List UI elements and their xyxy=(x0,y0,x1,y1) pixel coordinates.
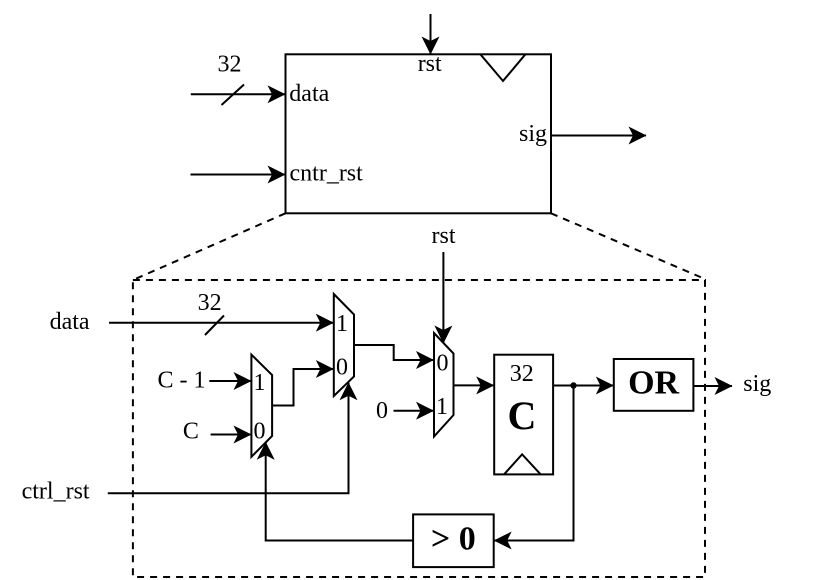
clock input wedge (top-level) xyxy=(480,54,525,81)
0 constant wire into M3 input 1 xyxy=(394,410,434,412)
svg-text:rst: rst xyxy=(418,51,442,77)
feedback wire to comparator xyxy=(494,386,573,541)
svg-text:1: 1 xyxy=(436,394,448,420)
svg-text:data: data xyxy=(50,309,90,335)
data input wire (top-level) xyxy=(191,93,285,95)
register clock wedge xyxy=(504,454,541,474)
zoom connector right (dashed) xyxy=(551,213,705,279)
mux M2 (data / count select) xyxy=(334,294,354,396)
svg-text:rst: rst xyxy=(432,223,456,249)
M2 output wire to M3 input 0 xyxy=(354,345,434,360)
sig output wire (top-level) xyxy=(551,135,646,137)
comparator > 0 box xyxy=(413,514,494,567)
svg-text:0: 0 xyxy=(336,354,348,380)
sig output wire (detail) xyxy=(693,385,732,387)
rst input arrow (top-level) xyxy=(430,14,432,54)
data wire into mux M2 xyxy=(109,322,333,324)
top-level block (counter module) xyxy=(286,54,552,213)
C-1 wire into mux M1 input 1 xyxy=(209,380,251,382)
svg-text:32: 32 xyxy=(510,361,534,387)
junction node xyxy=(570,382,576,388)
svg-text:1: 1 xyxy=(336,311,348,337)
svg-text:0: 0 xyxy=(437,350,449,376)
bus slash on data (top-level) xyxy=(222,85,245,106)
svg-text:OR: OR xyxy=(628,365,679,402)
ctrl_rst wire to M2 select xyxy=(108,383,349,494)
svg-text:C - 1: C - 1 xyxy=(158,368,206,394)
svg-text:cntr_rst: cntr_rst xyxy=(290,161,364,187)
OR gate box xyxy=(614,359,694,411)
C wire into mux M1 input 0 xyxy=(211,434,251,436)
cntr_rst input wire (top-level) xyxy=(191,174,286,176)
svg-text:0: 0 xyxy=(254,418,266,444)
zoom connector left (dashed) xyxy=(133,213,286,280)
M1 output wire to M2 input 0 xyxy=(272,369,333,406)
svg-text:0: 0 xyxy=(376,398,388,424)
rst wire into mux M3 select xyxy=(442,252,444,343)
mux M1 (C-1 / C select) xyxy=(251,355,272,457)
svg-text:C: C xyxy=(508,393,537,438)
register output wire to OR gate xyxy=(553,385,613,387)
svg-text:32: 32 xyxy=(198,290,222,316)
svg-text:sig: sig xyxy=(743,371,771,397)
register C (32-bit counter register) xyxy=(494,355,553,475)
M3 output wire to register C xyxy=(454,384,494,386)
detail region boundary (dashed box) xyxy=(133,280,705,577)
mux M3 (reset select) xyxy=(434,333,454,437)
svg-text:1: 1 xyxy=(254,370,266,396)
svg-text:data: data xyxy=(289,81,329,107)
svg-text:sig: sig xyxy=(519,121,547,147)
svg-text:> 0: > 0 xyxy=(431,521,476,558)
svg-text:32: 32 xyxy=(218,52,242,78)
comparator output wire to M1 select xyxy=(266,442,413,540)
svg-text:ctrl_rst: ctrl_rst xyxy=(22,479,90,505)
svg-text:C: C xyxy=(183,419,199,445)
bus slash on data (detail) xyxy=(205,316,224,336)
